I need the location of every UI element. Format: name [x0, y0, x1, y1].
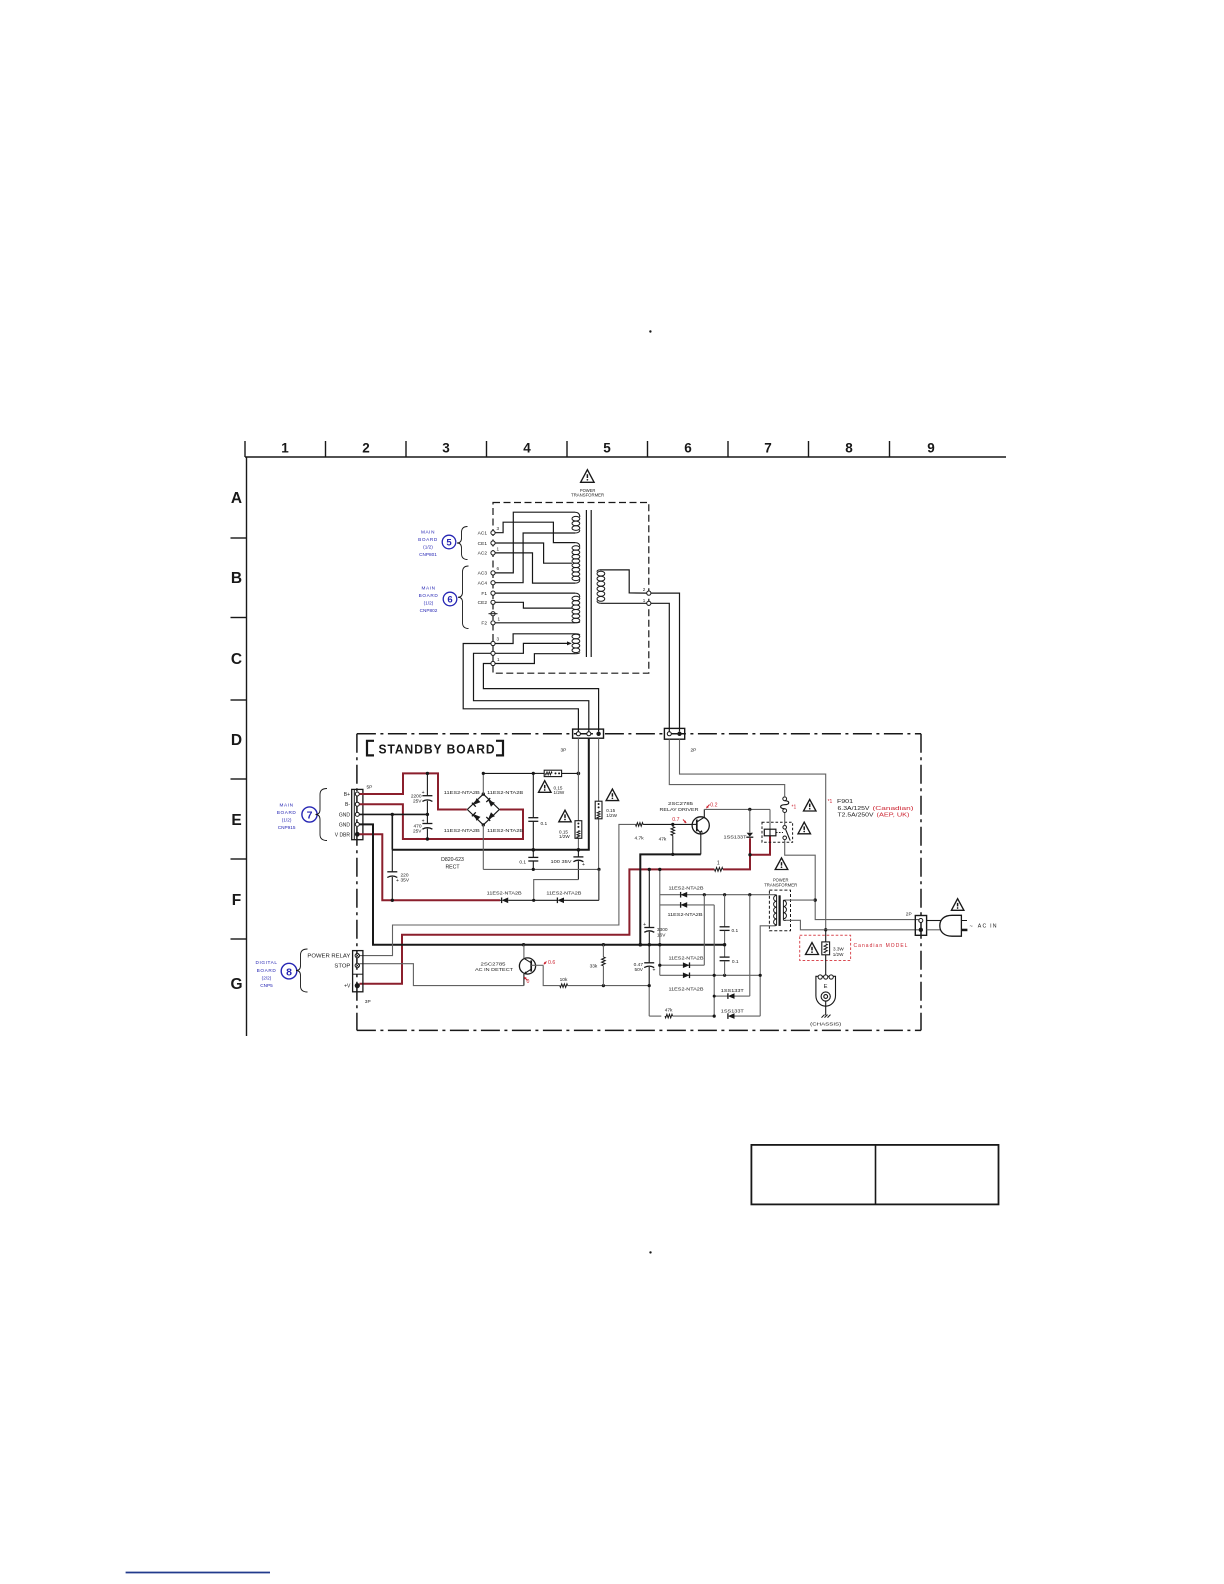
- wire AC1 to W2 top: [495, 522, 575, 542]
- svg-text:(CHASSIS): (CHASSIS): [810, 1021, 841, 1027]
- footer blue line: [126, 1572, 270, 1574]
- svg-text:10k: 10k: [560, 977, 568, 983]
- T902 primary winding: [782, 900, 784, 920]
- row letters A-G: [230, 490, 242, 993]
- svg-text:2P: 2P: [691, 748, 697, 754]
- connector 2P (to transformer): [664, 728, 684, 739]
- junction row5: [713, 995, 716, 998]
- standby board border bottom: [357, 1029, 921, 1031]
- diode 11ES2-NTA2B (detect 2): [534, 899, 558, 901]
- wire row2: [660, 904, 714, 906]
- bridge diode top-right (to top): [488, 800, 495, 807]
- warning triangle fusible top: [539, 781, 552, 793]
- wire POWER RELAY signal: [359, 824, 635, 955]
- svg-text:CNP5: CNP5: [260, 983, 273, 988]
- registration dot bottom: [649, 1251, 651, 1253]
- svg-text:3300: 3300: [657, 927, 668, 933]
- wire T902 secondary top (row1): [660, 894, 775, 896]
- svg-text:2: 2: [643, 587, 646, 592]
- resistor 47k (bias): [649, 1015, 661, 1017]
- junction AC hot: [824, 928, 827, 931]
- brace for CNP915: [316, 789, 328, 841]
- bridge diode bottom-left (to +): [474, 814, 481, 821]
- AC return line: [483, 868, 599, 870]
- warning triangle relay: [798, 822, 811, 834]
- junction relay coil return: [748, 853, 751, 856]
- svg-text:BOARD: BOARD: [257, 968, 277, 973]
- capacitor 0.1 (right upper): [724, 895, 726, 927]
- winding W4: [572, 634, 580, 639]
- top ruler line: [245, 456, 1006, 458]
- svg-text:AC IN DETECT: AC IN DETECT: [475, 967, 513, 972]
- svg-text:A: A: [231, 490, 242, 507]
- wire 100uF to detect diodes: [534, 880, 579, 901]
- svg-text:25V: 25V: [413, 799, 422, 805]
- fusible resistor 0.15 1/2W (mid): [575, 821, 582, 839]
- junction bridge top: [482, 792, 485, 795]
- svg-text:Canadian MODEL: Canadian MODEL: [854, 943, 909, 949]
- svg-text:+: +: [643, 922, 646, 928]
- junction collector/diode: [748, 808, 751, 811]
- svg-text:3P: 3P: [561, 748, 567, 754]
- circled 5: [442, 535, 456, 549]
- fusible resistor 0.15 1/2W (right): [595, 801, 602, 819]
- capacitor 3300uF 16V: [648, 869, 650, 927]
- junction bridge-top tee: [482, 772, 485, 775]
- registration dot top: [649, 330, 651, 332]
- svg-text:AC3: AC3: [478, 571, 488, 577]
- svg-text:6: 6: [447, 595, 452, 606]
- node W5 pin 1: [647, 601, 651, 605]
- svg-text:16V: 16V: [657, 932, 666, 938]
- relay linkage dashed: [776, 832, 783, 834]
- svg-text:+: +: [582, 862, 585, 868]
- top ruler ticks: [245, 441, 890, 457]
- fusible resistor 0.15 1/2W (top): [544, 770, 561, 776]
- svg-text:B: B: [231, 570, 242, 587]
- svg-text:0.1: 0.1: [541, 821, 548, 827]
- svg-text:3: 3: [497, 637, 500, 642]
- wire pin1 to W4 bottom: [495, 654, 575, 664]
- warning triangle AC plug: [951, 899, 964, 911]
- svg-text:CNP915: CNP915: [278, 825, 296, 830]
- circled 6: [443, 592, 457, 606]
- brace for CNP5: [296, 949, 308, 992]
- svg-text:MAIN: MAIN: [421, 585, 435, 590]
- svg-text:11ES2-NTA2B: 11ES2-NTA2B: [669, 886, 704, 891]
- svg-text:E: E: [231, 812, 241, 829]
- svg-text:+: +: [396, 878, 399, 884]
- svg-text:(2/2): (2/2): [262, 975, 272, 980]
- wire base divider: [543, 965, 560, 985]
- wire bridge bottom to AC line: [482, 825, 484, 870]
- svg-text:AC2: AC2: [478, 551, 488, 557]
- capacitor 100uF 35V: [577, 850, 579, 857]
- junction base/47k: [671, 823, 674, 826]
- svg-text:RECT: RECT: [445, 865, 460, 871]
- standby board border top: [357, 733, 921, 735]
- capacitor 0.47uF 50V: [648, 945, 650, 963]
- connector CNP915 5P: [352, 789, 363, 839]
- svg-text:RELAY DRIVER: RELAY DRIVER: [660, 807, 700, 812]
- svg-text:8: 8: [845, 441, 853, 456]
- junction 47k row: [713, 1015, 716, 1018]
- svg-text:50V: 50V: [634, 967, 643, 973]
- svg-text:1/2W: 1/2W: [606, 813, 617, 818]
- svg-text:1SS133T: 1SS133T: [721, 1008, 744, 1013]
- svg-text:4: 4: [523, 441, 531, 456]
- svg-text:0.7: 0.7: [672, 817, 679, 823]
- svg-text:3P: 3P: [365, 999, 371, 1005]
- junction maroon/verticals: [648, 868, 651, 871]
- svg-text:F2: F2: [481, 621, 487, 627]
- svg-text:F: F: [232, 892, 241, 909]
- diode 11ES2-NTA2B (detect 1): [500, 899, 502, 901]
- svg-text:1: 1: [498, 617, 501, 622]
- svg-text:11ES2-NTA2B: 11ES2-NTA2B: [669, 956, 704, 961]
- pin numbers 3/1/6/1/3/1: [497, 526, 501, 662]
- svg-text:2SC2785: 2SC2785: [481, 961, 507, 966]
- svg-text:AC1: AC1: [478, 531, 488, 537]
- wire base: [643, 823, 692, 825]
- wire row4: [660, 974, 760, 976]
- svg-text:BOARD: BOARD: [419, 593, 439, 598]
- wire V DBR: [359, 834, 500, 900]
- revision table: [751, 1145, 998, 1205]
- AC plug: [940, 915, 962, 936]
- winding W1: [572, 516, 580, 521]
- svg-text:470: 470: [413, 823, 421, 829]
- wire 3P pin3 drop: [598, 738, 600, 801]
- svg-text:V DBR: V DBR: [335, 832, 351, 838]
- winding W3: [572, 596, 580, 601]
- svg-text:2SC2785: 2SC2785: [668, 801, 694, 806]
- wire row2 drop: [713, 905, 715, 1016]
- svg-text:(1/2): (1/2): [424, 600, 434, 605]
- wire 1ohm to relay coil: [723, 855, 750, 870]
- wire W5 bottom to pin 1: [601, 602, 647, 604]
- svg-text:7: 7: [307, 810, 313, 822]
- svg-text:T2.5A/250V: T2.5A/250V: [838, 812, 875, 818]
- svg-text:AC4: AC4: [478, 581, 488, 587]
- wire AC4 to W1 bottom: [495, 533, 575, 583]
- svg-text:5: 5: [603, 441, 611, 456]
- capacitor 0.1 (lower): [532, 850, 534, 857]
- wire W5 pin1 down to 2P: [651, 603, 669, 731]
- svg-text:TRANSFORMER: TRANSFORMER: [571, 493, 604, 498]
- junction rail 0.1: [532, 848, 536, 852]
- circled 7: [302, 807, 317, 822]
- svg-text:GND: GND: [339, 812, 351, 818]
- junction B- cap470: [426, 837, 429, 840]
- wire row3 up: [703, 895, 705, 966]
- svg-text:(1/2): (1/2): [423, 544, 433, 549]
- svg-text:STOP: STOP: [334, 964, 351, 970]
- svg-text:47k: 47k: [659, 836, 667, 842]
- wire T902 secondary bottom: [760, 926, 774, 1016]
- relay contact: [783, 826, 787, 830]
- junction bus dots: [522, 943, 525, 946]
- svg-text:220: 220: [401, 872, 409, 878]
- svg-text:GND: GND: [339, 822, 351, 828]
- svg-text:~: ~: [970, 924, 973, 930]
- svg-text:0.1: 0.1: [732, 959, 739, 965]
- svg-text:2P: 2P: [906, 912, 912, 918]
- svg-text:1: 1: [497, 657, 500, 662]
- wire STOP signal: [359, 964, 523, 986]
- svg-text:1SS133T: 1SS133T: [724, 835, 747, 840]
- junction emitter/47k: [671, 853, 674, 856]
- wire relay contact to AC: [785, 840, 919, 920]
- wire AC2 to W2 bottom: [495, 553, 575, 583]
- wire AC3 to W1 top: [495, 512, 575, 573]
- svg-text:D: D: [231, 732, 242, 749]
- wire diode row up corner: [598, 869, 600, 900]
- left ruler line: [246, 457, 248, 1036]
- transistor Q901 2SC2785 RELAY DRIVER: [692, 817, 709, 834]
- capacitor 220uF 35V: [391, 850, 393, 872]
- relay coil: [764, 829, 776, 836]
- wire pin3 to W4 top: [495, 634, 575, 644]
- svg-text:F1: F1: [481, 591, 487, 597]
- svg-text:(AEP, UK): (AEP, UK): [877, 812, 910, 818]
- svg-text:11ES2-NTA2B: 11ES2-NTA2B: [444, 828, 480, 833]
- wire T902 primary top: [786, 899, 815, 901]
- title STANDBY BOARD: [367, 741, 374, 756]
- wire bridge top to AC line: [482, 773, 484, 794]
- warning triangle fusible mid: [559, 810, 571, 822]
- svg-text:1: 1: [281, 441, 289, 456]
- svg-text:STANDBY BOARD: STANDBY BOARD: [379, 741, 496, 756]
- svg-text:0.1: 0.1: [732, 928, 739, 934]
- svg-text:11ES2-NTA2B: 11ES2-NTA2B: [546, 891, 581, 896]
- wire B- to bridge: [359, 804, 523, 839]
- vertical 659.8: [659, 869, 661, 975]
- svg-text:47k: 47k: [665, 1007, 673, 1013]
- junction bridge bottom: [482, 823, 485, 826]
- wire 3P pin1 drop: [577, 738, 579, 773]
- warning triangle above power transformer: [581, 470, 595, 483]
- svg-text:*1: *1: [792, 804, 797, 810]
- relay RY901 dashed box: [762, 822, 793, 842]
- svg-text:25V: 25V: [413, 828, 422, 834]
- svg-text:1/2W: 1/2W: [559, 834, 570, 839]
- capacitor 2200uF 25V: [426, 773, 428, 795]
- wire row5 up: [749, 895, 751, 996]
- wire F1 to W3 top: [495, 592, 575, 594]
- svg-text:MAIN: MAIN: [280, 803, 294, 808]
- wire CE2 to W3 tap: [495, 602, 572, 608]
- wire GND2 to bus: [359, 824, 724, 944]
- resistor 33k: [602, 945, 604, 957]
- transistor Q902 2SC2785 AC IN DETECT: [519, 958, 535, 974]
- wire pin1 to 3P pin3: [483, 664, 598, 732]
- junction AC/fusible: [577, 772, 581, 776]
- connector CNP801/CNP802 pins: [489, 531, 498, 666]
- power transformer T901 dashed box: [493, 503, 649, 674]
- transformer T901 core: [585, 510, 587, 657]
- wire contact to fuse: [784, 811, 786, 826]
- svg-text:F901: F901: [837, 799, 853, 805]
- svg-text:11ES2-NTA2B: 11ES2-NTA2B: [487, 891, 522, 896]
- svg-text:D820-623: D820-623: [441, 857, 464, 863]
- wire to plug live: [927, 920, 942, 922]
- svg-text:CE1: CE1: [478, 541, 488, 547]
- svg-text:11ES2-NTA2B: 11ES2-NTA2B: [444, 790, 480, 795]
- svg-text:1: 1: [643, 598, 646, 603]
- svg-text:35V: 35V: [401, 878, 410, 884]
- resistor 10k: [560, 984, 568, 988]
- warning triangle canadian: [806, 943, 819, 955]
- junction AC neutral: [814, 898, 817, 901]
- wire collector node: [704, 808, 770, 810]
- connector 3P (to transformer): [573, 729, 604, 738]
- junction row1 dots: [703, 893, 706, 896]
- wire row3: [660, 964, 705, 966]
- svg-text:11ES2-NTA2B: 11ES2-NTA2B: [669, 986, 704, 991]
- resistor 1 (1 ohm): [715, 868, 723, 872]
- voltage 0.2 red: [706, 805, 709, 809]
- wire divider row: [568, 985, 650, 987]
- svg-text:+V: +V: [344, 984, 351, 990]
- svg-text:1/2W: 1/2W: [554, 790, 565, 795]
- svg-text:33k: 33k: [590, 964, 598, 970]
- junction VDBR diode row: [532, 899, 535, 902]
- svg-text:0.47: 0.47: [634, 962, 644, 968]
- bridge rectifier D820-623 outline: [467, 794, 499, 825]
- svg-text:2200: 2200: [411, 794, 422, 800]
- svg-text:CNP801: CNP801: [419, 552, 437, 557]
- warning triangle fusible right: [606, 789, 619, 801]
- svg-text:POWER RELAY: POWER RELAY: [307, 954, 351, 960]
- diode 1SS133T (row5): [714, 995, 728, 997]
- svg-text:0.2: 0.2: [710, 803, 717, 809]
- svg-text:2: 2: [362, 441, 370, 456]
- svg-text:5P: 5P: [367, 785, 373, 791]
- wire mid pin to 3P pin2: [474, 653, 589, 731]
- wire emitter to bus: [640, 854, 701, 944]
- winding W5 secondary: [597, 571, 605, 576]
- diode 1SS133T (relay clamp): [749, 809, 751, 832]
- svg-text:6: 6: [497, 566, 500, 571]
- svg-text:11ES2-NTA2B: 11ES2-NTA2B: [668, 912, 703, 917]
- canadian model dashed box: [800, 935, 851, 960]
- wire +V rail: [359, 869, 714, 983]
- wire to plug neutral: [927, 929, 941, 931]
- brace for CNP802: [458, 566, 469, 629]
- svg-text:1: 1: [497, 547, 500, 552]
- svg-text:100 35V: 100 35V: [551, 859, 573, 865]
- svg-text:6: 6: [684, 441, 692, 456]
- svg-text:CNP802: CNP802: [420, 608, 438, 613]
- wire W5 pin2 down to 2P: [651, 593, 680, 731]
- column numbers 1-9: [281, 441, 935, 456]
- connector 2P (AC in): [915, 916, 926, 936]
- svg-text:5: 5: [446, 538, 452, 549]
- wire T902 primary bottom: [786, 920, 919, 930]
- svg-text:7: 7: [764, 441, 772, 456]
- wire CE1 to W2 tap: [495, 543, 572, 563]
- wire mid pin to W4 with arrow: [495, 643, 568, 653]
- svg-text:B+: B+: [344, 792, 350, 798]
- svg-text:1: 1: [717, 861, 720, 867]
- pin name labels AC1..F2: [478, 531, 488, 627]
- wire GND drop to 0V rail: [391, 814, 393, 849]
- svg-text:3: 3: [442, 441, 450, 456]
- wire 2P hot to AC: [680, 739, 826, 930]
- wire F2 to W3 bottom: [495, 622, 575, 624]
- capacitor 470uF 25V: [426, 814, 428, 823]
- 0V rail: [392, 738, 589, 850]
- brace for CNP801: [457, 527, 468, 560]
- svg-text:E: E: [824, 984, 828, 990]
- standby transformer T902 dashed box: [769, 890, 790, 931]
- svg-text:(Canadian): (Canadian): [873, 806, 915, 812]
- node W5 pin 2: [647, 591, 651, 595]
- wire W5 top to pin 2: [600, 570, 647, 593]
- svg-text:DIGITAL: DIGITAL: [255, 960, 277, 965]
- chassis ground hatch: [822, 1015, 825, 1018]
- svg-text:G: G: [230, 976, 242, 993]
- svg-text:POWER: POWER: [773, 877, 789, 882]
- svg-text:11ES2-NTA2B: 11ES2-NTA2B: [487, 828, 523, 833]
- svg-text:TRANSFORMER: TRANSFORMER: [764, 883, 797, 888]
- junction B+ cap2200: [426, 772, 429, 775]
- resistor 4.7k: [636, 823, 644, 827]
- wire AC top line: [483, 772, 536, 774]
- wire B+ to bridge: [359, 773, 466, 809]
- T902 secondary winding: [776, 895, 778, 924]
- T902 core: [778, 895, 780, 926]
- svg-text:8: 8: [286, 966, 292, 978]
- svg-text:B-: B-: [345, 802, 350, 808]
- svg-text:C: C: [231, 651, 242, 668]
- svg-text:*1: *1: [828, 799, 833, 805]
- connector CNP5 3P: [353, 951, 363, 992]
- svg-text:0.1: 0.1: [519, 859, 526, 865]
- svg-text:BOARD: BOARD: [418, 537, 438, 542]
- wire 2P to fuse: [669, 739, 784, 797]
- standby board border right: [920, 734, 922, 1031]
- standby board border left: [356, 734, 358, 1031]
- wire 0.47 to 47k row: [648, 986, 650, 1017]
- wire pin3 to 3P pin1: [463, 644, 578, 732]
- svg-text:6.3A/125V: 6.3A/125V: [838, 806, 871, 812]
- svg-text:3: 3: [497, 526, 500, 531]
- capacitor 0.1 (right lower): [724, 945, 726, 957]
- fuse F901: [783, 797, 787, 801]
- junction return/fusible3: [597, 868, 600, 871]
- svg-text:4.7k: 4.7k: [635, 835, 645, 841]
- bridge diode bottom-right (to -): [488, 812, 495, 819]
- svg-text:1SS133T: 1SS133T: [721, 988, 744, 993]
- warning triangle fuse: [804, 799, 817, 811]
- svg-text:CE2: CE2: [478, 600, 488, 606]
- junction GND cap: [391, 813, 394, 816]
- diode 1SS133T (row6): [728, 1013, 735, 1019]
- junction divider: [602, 984, 605, 987]
- svg-text:AC IN: AC IN: [978, 924, 998, 930]
- resistor 47k (relay driver): [672, 824, 674, 826]
- earth chassis symbol E: [816, 976, 836, 1006]
- fusible resistor canadian: [825, 930, 827, 942]
- svg-text:MAIN: MAIN: [421, 529, 435, 534]
- junction return/0.1: [532, 868, 535, 871]
- svg-text:+: +: [422, 790, 425, 796]
- diode 11ES2-NTA2B row1: [681, 892, 688, 898]
- junction row3: [658, 964, 661, 967]
- junction row4 dots: [713, 974, 716, 977]
